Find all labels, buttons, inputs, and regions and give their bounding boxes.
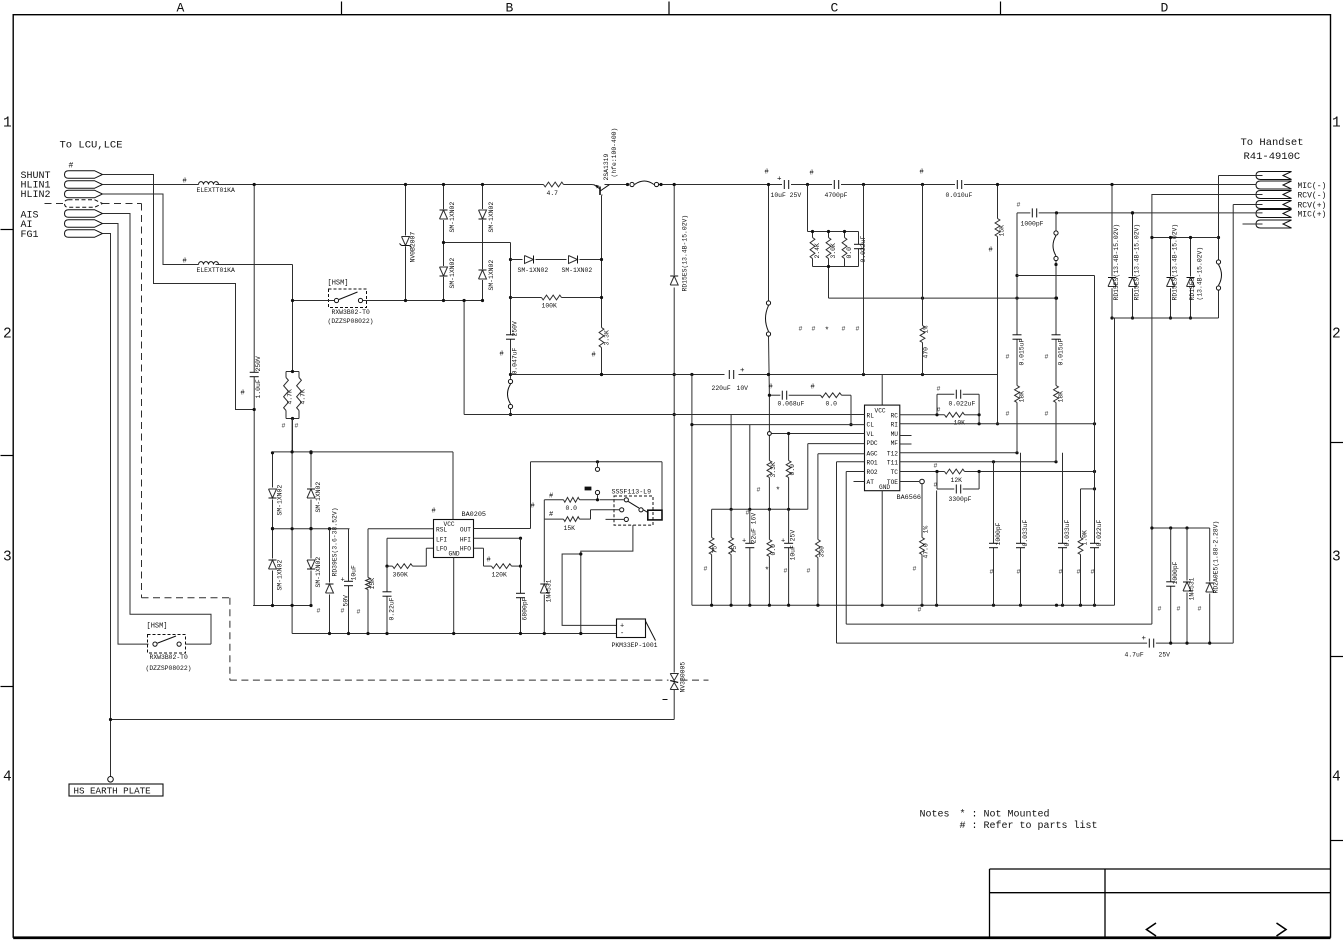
svg-text:#: # bbox=[1158, 606, 1162, 613]
svg-text:VL: VL bbox=[867, 431, 875, 438]
svg-text:SM-1XN02: SM-1XN02 bbox=[562, 267, 593, 274]
svg-text:0.0: 0.0 bbox=[566, 505, 578, 512]
svg-text:75: 75 bbox=[712, 546, 719, 554]
svg-text:0.033uF: 0.033uF bbox=[1022, 519, 1029, 546]
svg-text:(hfe:100-400): (hfe:100-400) bbox=[611, 128, 618, 178]
svg-text:#: # bbox=[810, 170, 814, 178]
svg-text:25V: 25V bbox=[1159, 652, 1171, 659]
svg-text:A: A bbox=[177, 1, 185, 16]
svg-text:RCV(-): RCV(-) bbox=[1298, 192, 1327, 201]
svg-text:RL: RL bbox=[867, 412, 875, 419]
svg-text:0.022uF: 0.022uF bbox=[949, 401, 976, 408]
svg-text:To LCU,LCE: To LCU,LCE bbox=[60, 140, 123, 152]
svg-text:0.22uF: 0.22uF bbox=[389, 597, 396, 620]
svg-text:#: # bbox=[799, 326, 803, 333]
svg-text:+: + bbox=[777, 176, 782, 184]
svg-text:R41-4910C: R41-4910C bbox=[1244, 151, 1301, 163]
svg-text:0.0: 0.0 bbox=[826, 401, 838, 408]
svg-text:#: # bbox=[812, 326, 816, 333]
svg-text:SM-1XN02: SM-1XN02 bbox=[315, 557, 322, 588]
svg-text:220uF: 220uF bbox=[712, 385, 731, 392]
svg-text:#: # bbox=[989, 247, 993, 255]
svg-text:#: # bbox=[1045, 354, 1049, 361]
svg-text:AGC: AGC bbox=[867, 450, 878, 457]
svg-text:10V: 10V bbox=[737, 385, 749, 392]
svg-text:22uF 16V: 22uF 16V bbox=[751, 513, 758, 544]
svg-text:RD15ES(13.4B-15.02V): RD15ES(13.4B-15.02V) bbox=[1113, 224, 1120, 301]
svg-text:FG1: FG1 bbox=[21, 230, 39, 241]
svg-text:1.0uF: 1.0uF bbox=[255, 379, 262, 398]
svg-text:MU: MU bbox=[891, 431, 899, 438]
svg-text:#: # bbox=[592, 352, 596, 360]
svg-text:RCV(+): RCV(+) bbox=[1298, 201, 1327, 210]
svg-text:NV0B2007: NV0B2007 bbox=[410, 232, 417, 263]
svg-text:#: # bbox=[500, 351, 504, 359]
svg-text:#: # bbox=[282, 423, 286, 430]
svg-text:2.4K: 2.4K bbox=[814, 243, 821, 259]
svg-text:1N4531: 1N4531 bbox=[546, 579, 553, 602]
svg-text:B: B bbox=[506, 1, 514, 16]
svg-text:GND: GND bbox=[449, 551, 460, 558]
svg-text:*: * bbox=[765, 567, 770, 576]
svg-text:#: # bbox=[1045, 411, 1049, 418]
svg-text:SM-1XN02: SM-1XN02 bbox=[488, 260, 495, 291]
svg-text:#: # bbox=[769, 384, 773, 392]
svg-text:1000pF: 1000pF bbox=[995, 522, 1002, 545]
svg-text:C: C bbox=[831, 1, 839, 16]
svg-text:0.068uF: 0.068uF bbox=[778, 401, 805, 408]
svg-text:2: 2 bbox=[3, 327, 12, 343]
svg-text:4: 4 bbox=[1332, 770, 1341, 786]
svg-text:PDC: PDC bbox=[867, 440, 878, 447]
svg-text:4700pF: 4700pF bbox=[825, 192, 848, 199]
svg-text:RO2: RO2 bbox=[867, 469, 878, 476]
svg-text:RD15ES: RD15ES bbox=[1189, 277, 1196, 300]
svg-text:AT: AT bbox=[867, 479, 875, 486]
svg-text:0.010uF: 0.010uF bbox=[946, 192, 973, 199]
svg-text:SM-1XN02: SM-1XN02 bbox=[449, 258, 456, 289]
svg-text:#: # bbox=[549, 493, 553, 501]
svg-text:0.0: 0.0 bbox=[789, 464, 796, 476]
svg-text:HS EARTH PLATE: HS EARTH PLATE bbox=[74, 785, 152, 796]
svg-text:+: + bbox=[781, 538, 785, 546]
svg-text:#: # bbox=[842, 326, 846, 333]
svg-text:#: # bbox=[937, 386, 941, 393]
svg-text:4.7: 4.7 bbox=[547, 190, 559, 197]
svg-text:250V: 250V bbox=[512, 321, 519, 337]
svg-text:#: # bbox=[918, 607, 922, 614]
svg-text:RD15ES(13.4B-15.02V): RD15ES(13.4B-15.02V) bbox=[1172, 224, 1179, 301]
svg-text:(DZZSP08022): (DZZSP08022) bbox=[146, 665, 192, 672]
svg-text:#: # bbox=[704, 566, 708, 573]
svg-text:MIC(-): MIC(-) bbox=[1298, 182, 1327, 191]
svg-text:RXW3B02-T0: RXW3B02-T0 bbox=[150, 654, 189, 661]
svg-text:#: # bbox=[295, 423, 299, 430]
svg-text:*: * bbox=[776, 487, 781, 496]
svg-text:15K: 15K bbox=[564, 525, 576, 532]
svg-text:#: # bbox=[811, 384, 815, 392]
svg-text:#: # bbox=[757, 487, 761, 494]
svg-text:18K: 18K bbox=[1019, 391, 1026, 403]
svg-text:0.015uF: 0.015uF bbox=[1019, 338, 1026, 365]
svg-text:RI: RI bbox=[891, 422, 899, 429]
svg-text:SM-1XN02: SM-1XN02 bbox=[277, 485, 284, 516]
svg-text:#: # bbox=[807, 568, 811, 575]
svg-text:ELEXTT01KA: ELEXTT01KA bbox=[197, 187, 236, 194]
svg-text:#: # bbox=[487, 557, 491, 565]
svg-text:RXW3B02-T0: RXW3B02-T0 bbox=[332, 309, 371, 316]
svg-text:GND: GND bbox=[879, 484, 890, 491]
svg-text:3: 3 bbox=[1332, 550, 1341, 566]
svg-text:#: # bbox=[937, 407, 941, 414]
svg-text:HFI: HFI bbox=[460, 537, 471, 544]
svg-text:6800pF: 6800pF bbox=[522, 597, 529, 620]
svg-text:3.3K: 3.3K bbox=[604, 330, 611, 346]
svg-text:360K: 360K bbox=[393, 572, 409, 579]
svg-text:#: # bbox=[934, 463, 938, 470]
svg-text:330: 330 bbox=[819, 546, 826, 558]
svg-text:#: # bbox=[1177, 606, 1181, 613]
svg-text:#: # bbox=[357, 609, 361, 616]
svg-text:#: # bbox=[913, 566, 917, 573]
svg-text:RO1: RO1 bbox=[867, 459, 878, 466]
svg-text:LFO: LFO bbox=[436, 546, 447, 553]
svg-text:#: # bbox=[241, 390, 245, 398]
svg-text:MF: MF bbox=[891, 440, 899, 447]
svg-text:SM-1XN02: SM-1XN02 bbox=[277, 560, 284, 591]
svg-text:OUT: OUT bbox=[460, 527, 471, 534]
svg-text:-: - bbox=[620, 630, 624, 638]
svg-text:1: 1 bbox=[3, 116, 12, 132]
svg-text:75: 75 bbox=[731, 546, 738, 554]
svg-text:# : Refer to parts list: # : Refer to parts list bbox=[960, 820, 1098, 832]
svg-text:10K: 10K bbox=[954, 420, 966, 427]
svg-text:#: # bbox=[432, 508, 436, 516]
svg-text:250V: 250V bbox=[255, 356, 262, 372]
svg-text:SM-1XN02: SM-1XN02 bbox=[449, 202, 456, 233]
svg-text:15K: 15K bbox=[369, 578, 376, 590]
svg-text:0.022uF: 0.022uF bbox=[1096, 519, 1103, 546]
svg-text:*: * bbox=[825, 327, 830, 336]
svg-text:+: + bbox=[742, 538, 746, 546]
svg-text:[HSM]: [HSM] bbox=[147, 623, 168, 631]
svg-text:RD2A0E5(1.88-2.28V): RD2A0E5(1.88-2.28V) bbox=[1213, 521, 1220, 594]
svg-text:0.047uF: 0.047uF bbox=[512, 347, 519, 374]
svg-text:3: 3 bbox=[3, 550, 12, 566]
svg-text:VCC: VCC bbox=[875, 407, 886, 414]
svg-text:1%: 1% bbox=[923, 526, 930, 534]
svg-text:47.0: 47.0 bbox=[923, 543, 930, 559]
svg-text:#: # bbox=[1017, 202, 1021, 209]
svg-text:10uF 25V: 10uF 25V bbox=[790, 530, 797, 561]
svg-text:15K: 15K bbox=[999, 225, 1006, 237]
svg-text:3300pF: 3300pF bbox=[949, 496, 972, 503]
svg-text:0.0: 0.0 bbox=[846, 247, 853, 259]
svg-text:#: # bbox=[1017, 569, 1021, 576]
svg-text:4: 4 bbox=[3, 770, 12, 786]
svg-text:D: D bbox=[1161, 1, 1169, 16]
svg-text:#: # bbox=[317, 608, 321, 615]
svg-text:SM-1XN02: SM-1XN02 bbox=[488, 202, 495, 233]
svg-text:2SA1319: 2SA1319 bbox=[603, 153, 610, 180]
svg-text:LFI: LFI bbox=[436, 537, 447, 544]
svg-text:+: + bbox=[341, 577, 345, 585]
svg-text:VCC: VCC bbox=[444, 521, 455, 528]
svg-text:HFO: HFO bbox=[460, 546, 471, 553]
svg-text:1N4531: 1N4531 bbox=[1189, 577, 1196, 600]
svg-text:#: # bbox=[1006, 411, 1010, 418]
svg-text:T12: T12 bbox=[887, 450, 898, 457]
svg-text:4.7K: 4.7K bbox=[300, 389, 307, 405]
svg-text:#: # bbox=[920, 169, 924, 177]
svg-text:1%: 1% bbox=[923, 326, 930, 334]
svg-text:BA0205: BA0205 bbox=[462, 511, 486, 519]
svg-text:[HSM]: [HSM] bbox=[328, 280, 349, 288]
svg-text:4.7K: 4.7K bbox=[287, 389, 294, 405]
svg-text:CL: CL bbox=[867, 422, 875, 429]
svg-text:T11: T11 bbox=[887, 459, 898, 466]
svg-text:10uF: 10uF bbox=[351, 565, 358, 581]
svg-text:100K: 100K bbox=[542, 303, 558, 310]
svg-text:MIC(+): MIC(+) bbox=[1298, 211, 1327, 220]
svg-text:1000pF: 1000pF bbox=[1021, 221, 1044, 228]
svg-text:1000pF: 1000pF bbox=[1172, 561, 1179, 584]
svg-text:(DZZSP08022): (DZZSP08022) bbox=[328, 318, 374, 325]
svg-text:HLIN2: HLIN2 bbox=[21, 190, 51, 201]
svg-text:#: # bbox=[69, 162, 74, 171]
svg-text:#: # bbox=[531, 503, 535, 511]
svg-text:#: # bbox=[1091, 569, 1095, 576]
svg-text:BA6566: BA6566 bbox=[897, 494, 921, 502]
svg-text:RD15ES(13.4B-15.02V): RD15ES(13.4B-15.02V) bbox=[682, 215, 689, 292]
svg-text:#: # bbox=[183, 178, 187, 186]
svg-text:2: 2 bbox=[1332, 327, 1341, 343]
svg-text:#: # bbox=[1059, 569, 1063, 576]
svg-text:TC: TC bbox=[891, 469, 899, 476]
svg-text:#: # bbox=[856, 326, 860, 333]
svg-text:+: + bbox=[740, 367, 745, 375]
svg-text:#: # bbox=[1077, 569, 1081, 576]
svg-text:#: # bbox=[934, 482, 938, 489]
svg-text:#: # bbox=[1006, 354, 1010, 361]
svg-text:18K: 18K bbox=[1058, 391, 1065, 403]
svg-text:+: + bbox=[1142, 635, 1147, 643]
svg-text:10uF 25V: 10uF 25V bbox=[771, 192, 802, 199]
svg-text:SM-1XN02: SM-1XN02 bbox=[315, 482, 322, 513]
svg-text:1.0K: 1.0K bbox=[1082, 530, 1089, 546]
svg-text:To Handset: To Handset bbox=[1241, 137, 1304, 149]
svg-text:3.0K: 3.0K bbox=[830, 243, 837, 259]
svg-text:* : Not Mounted: * : Not Mounted bbox=[960, 809, 1050, 821]
svg-text:#: # bbox=[183, 258, 187, 266]
svg-text:#: # bbox=[784, 568, 788, 575]
svg-text:RD15ES(13.4B-15.02V): RD15ES(13.4B-15.02V) bbox=[1134, 224, 1141, 301]
svg-text:120K: 120K bbox=[492, 572, 508, 579]
svg-text:PKM33EP-1001: PKM33EP-1001 bbox=[612, 642, 658, 649]
svg-text:#: # bbox=[990, 569, 994, 576]
svg-text:SM-1XN02: SM-1XN02 bbox=[518, 267, 549, 274]
svg-text:12K: 12K bbox=[951, 477, 963, 484]
svg-text:50V: 50V bbox=[343, 595, 350, 607]
svg-text:ELEXTT01KA: ELEXTT01KA bbox=[197, 267, 236, 274]
svg-text:0.033uF: 0.033uF bbox=[1064, 519, 1071, 546]
svg-text:1: 1 bbox=[1332, 116, 1341, 132]
svg-text:RD39ES(3.6-38.52V): RD39ES(3.6-38.52V) bbox=[332, 507, 339, 576]
svg-text:#: # bbox=[746, 510, 750, 517]
svg-text:SSSF113-L9: SSSF113-L9 bbox=[612, 489, 652, 496]
svg-text:#: # bbox=[341, 608, 345, 615]
svg-text:470: 470 bbox=[923, 347, 930, 359]
svg-text:0.0: 0.0 bbox=[770, 544, 777, 556]
svg-text:4.7uF: 4.7uF bbox=[1125, 652, 1144, 659]
svg-text:NV3B0005: NV3B0005 bbox=[680, 662, 687, 693]
svg-text:#: # bbox=[1198, 606, 1202, 613]
svg-text:(13.4B-15.02V): (13.4B-15.02V) bbox=[1197, 247, 1204, 301]
svg-text:#: # bbox=[549, 511, 553, 519]
svg-text:0.015uF: 0.015uF bbox=[1058, 338, 1065, 365]
svg-text:3.3K: 3.3K bbox=[770, 462, 777, 478]
svg-text:#: # bbox=[765, 169, 769, 177]
svg-text:Notes: Notes bbox=[920, 810, 950, 821]
svg-text:RC: RC bbox=[891, 412, 899, 419]
